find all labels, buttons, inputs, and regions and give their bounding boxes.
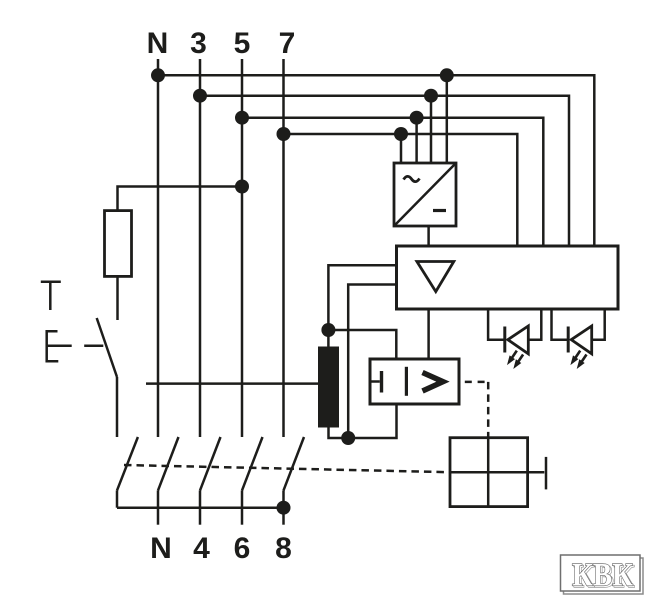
- svg-text:6: 6: [234, 532, 251, 565]
- svg-text:5: 5: [234, 27, 251, 60]
- wire: resistor to test switch: [116, 276, 119, 320]
- node: junction rectifier tap 7: [394, 127, 408, 141]
- node: junction pole 8 bottom: [277, 501, 291, 515]
- svg-text:N: N: [150, 532, 172, 565]
- wire: conductor 3 vertical: [199, 59, 202, 437]
- wire: rectifier feed from line 3: [430, 96, 433, 163]
- svg-text:7: 7: [279, 27, 296, 60]
- relay evaluation unit box: [397, 246, 619, 309]
- node: junction rectifier tap 5: [410, 111, 424, 125]
- LED H1 emission arrows: [507, 351, 523, 369]
- LED H1 cathode bar: [503, 327, 506, 353]
- wire: CT winding bottom to comparator: [329, 404, 397, 438]
- wire: rectifier feed from line N: [446, 75, 449, 163]
- svg-text:8: 8: [275, 532, 292, 565]
- comparator greater-than symbol: [423, 373, 444, 392]
- comparator input bar symbol: [380, 371, 383, 393]
- wire: test tap to resistor: [118, 187, 243, 212]
- LED H2 circuit wire: [552, 309, 605, 340]
- test tap node on conductor 5: [235, 180, 249, 194]
- wire: conductor 7 vertical: [282, 59, 285, 437]
- test resistor R: [105, 211, 132, 277]
- test switch blade: [97, 318, 117, 377]
- wire: pole N lower terminal: [157, 490, 160, 524]
- main switch blade pole 8: [284, 437, 305, 490]
- wire: pole 8 lower terminal: [282, 490, 285, 524]
- svg-text:N: N: [147, 27, 169, 60]
- trip coil plunger end bar: [545, 457, 548, 490]
- wire: bus line from 7 to relay unit: [284, 134, 518, 246]
- relay unit triangle symbol: [417, 262, 454, 292]
- dashed link comparator to trip coil: [459, 381, 488, 384]
- current transformer secondary winding bar: [318, 347, 339, 428]
- comparator reference bar symbol: [405, 367, 408, 396]
- LED H2 cathode bar: [567, 327, 570, 353]
- wire: pole 6 lower terminal: [241, 490, 244, 524]
- node: junction 3 bus: [193, 89, 207, 103]
- wire: test switch to main contact: [116, 377, 119, 437]
- main switch blade test pole: [117, 437, 138, 490]
- LED H2 emission arrows: [570, 351, 586, 369]
- test button T mark: [41, 282, 61, 310]
- node: junction CT winding top: [321, 323, 335, 337]
- wire: rectifier output to relay unit: [427, 226, 430, 246]
- node: junction winding bottom: [341, 431, 355, 445]
- wire: bus line from 5 to relay unit: [242, 118, 543, 246]
- KBK logo: [561, 555, 644, 595]
- main switch blade pole 6: [242, 437, 263, 490]
- main switch blade pole N: [158, 437, 179, 490]
- wire: conductor 5 vertical: [241, 59, 244, 437]
- rectifier U1 diagonal: [394, 163, 456, 226]
- wire: bottom test bus: [117, 506, 284, 509]
- comparator box: [370, 359, 459, 404]
- trip coil box: [450, 438, 528, 507]
- trip coil cross vertical: [487, 438, 490, 507]
- wire: bus line from 3 to relay unit: [200, 96, 569, 246]
- wire: comparator input top: [328, 330, 396, 359]
- wire: conductor N vertical: [157, 59, 160, 437]
- wire: CT primary line: [146, 382, 318, 385]
- dashed mechanical linkage to switches: [124, 465, 450, 472]
- node: junction N bus: [151, 68, 165, 82]
- wire: relay output upper to CT winding: [328, 265, 396, 346]
- LED H2 triangle: [571, 326, 592, 354]
- rectifier U1 DC minus symbol: [433, 209, 446, 212]
- comparator input stub symbol: [370, 380, 380, 383]
- svg-text:3: 3: [190, 27, 207, 60]
- main switch blade pole 4: [200, 437, 221, 490]
- node: junction rectifier tap 3: [424, 89, 438, 103]
- node: junction rectifier tap N: [440, 68, 454, 82]
- svg-text:КВК: КВК: [572, 558, 633, 594]
- wire: bus line from N to relay unit: [158, 75, 594, 246]
- wire: pole 4 lower terminal: [199, 490, 202, 524]
- wire: relay output lower: [348, 285, 396, 439]
- svg-text:4: 4: [193, 532, 210, 565]
- rectifier U1 AC tilde symbol: [404, 176, 420, 181]
- test button actuator link: [84, 345, 103, 348]
- rectifier U1 box: [394, 163, 456, 226]
- node: junction 7 bus: [277, 127, 291, 141]
- wire: test pole lower to bottom bus: [116, 490, 119, 507]
- node: junction 5 bus: [235, 111, 249, 125]
- test button symbol: [47, 331, 72, 361]
- wire: rectifier feed from line 7: [400, 134, 403, 163]
- wire: relay unit to comparator: [427, 309, 430, 359]
- wire: rectifier feed from line 5: [415, 118, 418, 163]
- trip coil cross horizontal and plunger: [450, 471, 544, 474]
- LED H1 triangle: [508, 326, 529, 354]
- LED H1 circuit wire: [488, 309, 541, 340]
